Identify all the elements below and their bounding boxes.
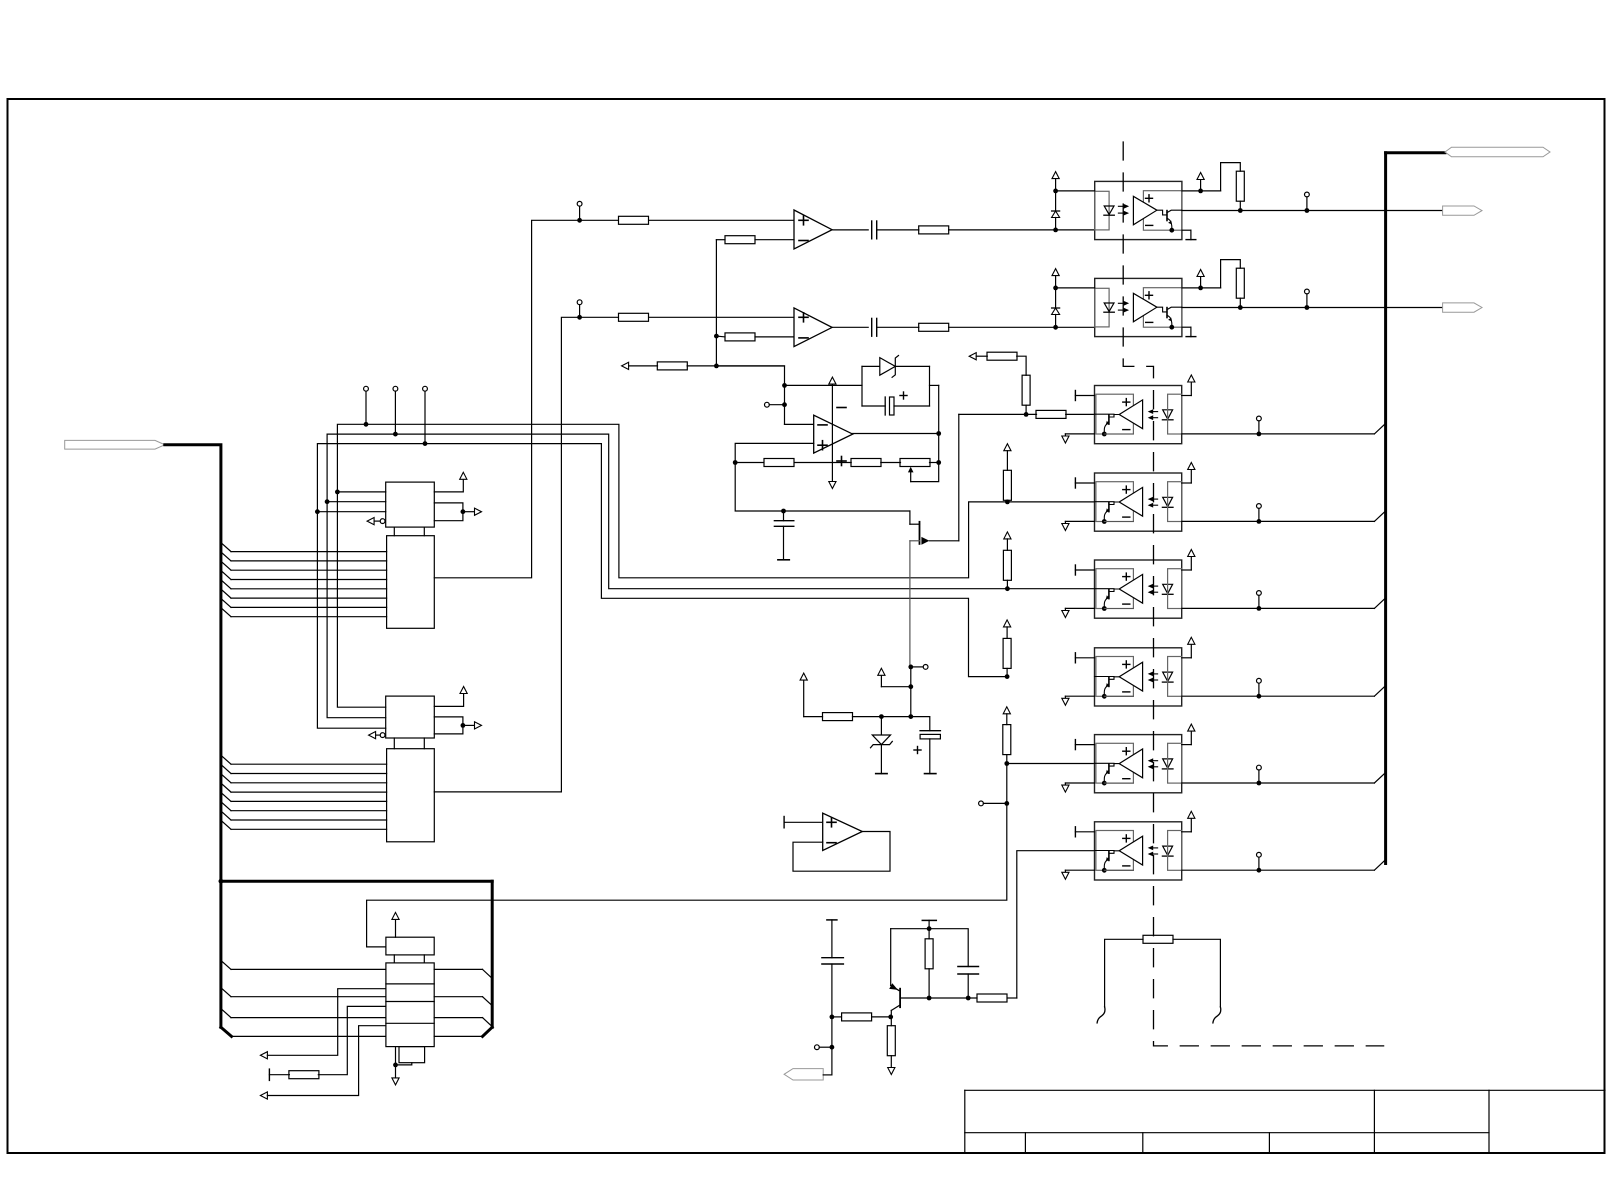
junction on thick bus — [219, 879, 224, 884]
resistor R8 — [764, 459, 794, 467]
potentiometer RV1 — [900, 459, 930, 467]
IC U2 neck — [393, 738, 395, 749]
supply tap bar 2 — [922, 919, 936, 921]
pullup resistor R22 — [1221, 163, 1241, 191]
resistor R19 — [925, 939, 933, 969]
control net 1 branch to U2 — [337, 492, 385, 707]
CN1 bus wires — [221, 960, 231, 969]
terminal T11 — [1305, 289, 1310, 294]
power symbol VCC node — [881, 686, 910, 688]
optocoupler OC5 — [1095, 560, 1182, 618]
resistor R11 — [1022, 375, 1030, 405]
IC U1 upper section — [386, 482, 435, 527]
OC8 supply arrow — [1182, 831, 1192, 833]
OC4 common pin arrow — [1065, 520, 1094, 522]
capacitor C6 — [822, 957, 844, 959]
U1 cascade arrow — [463, 511, 475, 513]
terminal T9 — [815, 1045, 820, 1050]
terminal T2 — [393, 386, 398, 391]
ground stub for C4 — [778, 559, 789, 561]
power symbol V- A3 — [829, 482, 836, 489]
optocoupler OC7 — [1095, 735, 1182, 793]
capacitor C2 — [871, 318, 873, 336]
power symbol VCC U1 — [460, 472, 467, 479]
IC U2 upper section — [386, 696, 435, 738]
terminal T4 — [577, 201, 582, 206]
power symbol and resistor R13 (OC4 feed) — [1004, 444, 1011, 451]
wire A3 output — [853, 433, 939, 435]
wire to Q2 emitter — [891, 928, 929, 930]
optocoupler OC2 — [1095, 278, 1182, 336]
wire A2 out to C2 — [832, 326, 868, 328]
Q2 base wire — [900, 997, 929, 999]
OC2 emitter return stub — [1182, 326, 1191, 328]
wire R17 to node — [853, 716, 911, 718]
feedback network frame — [861, 366, 863, 406]
OC4 supply arrow — [1182, 482, 1192, 484]
wire node to R12 — [959, 413, 1037, 415]
OC5 output wire — [1182, 607, 1375, 609]
contact wire left — [1105, 939, 1143, 1007]
wire R4 to A2 — [755, 336, 794, 338]
OC5 input tap bar — [1074, 565, 1076, 575]
capacitor C1 — [871, 221, 873, 239]
resistor R6 — [919, 226, 949, 234]
terminal T6 — [765, 402, 770, 407]
wire R7 to opto OC2 — [949, 326, 1095, 328]
wire OC7 input line — [1007, 763, 1095, 765]
wire R11 to node — [1025, 405, 1027, 414]
wire OC8 input line — [1017, 851, 1095, 998]
terminal T7 — [979, 801, 984, 806]
wire U2 output to amp A2 — [434, 317, 579, 792]
thick bus bottom bevel left — [221, 1027, 232, 1036]
zener diode D1 — [880, 358, 896, 376]
OC8 common pin arrow — [1065, 869, 1094, 871]
control net 1 wire — [337, 424, 1007, 578]
OC5 bus entry bevel — [1374, 598, 1385, 608]
OC3 input tap bar — [1074, 391, 1076, 401]
OC4 input tap bar — [1074, 478, 1076, 488]
control net 2 wire — [327, 434, 1094, 589]
OC1 input clamp diode D3 — [1052, 172, 1059, 179]
Q1 source wire down — [909, 541, 911, 667]
control net 2 branch to U1 — [327, 501, 386, 503]
RV1 wiper return wire — [911, 463, 939, 482]
terminal T5 — [577, 300, 582, 305]
resistor R4 on A2 -input — [725, 333, 755, 341]
IC U1 lower section — [387, 536, 435, 629]
wire bar2 down — [928, 920, 930, 938]
terminal T1 — [364, 386, 369, 391]
OC7 input tap bar — [1074, 740, 1076, 750]
power symbol and resistor R14 (OC5 feed) — [1004, 532, 1011, 539]
connector CN1 top section — [386, 937, 434, 955]
OC8 input tap bar — [1074, 827, 1076, 837]
A3 output vertical wire — [938, 385, 940, 462]
thick isolated-area box right edge — [491, 881, 494, 1027]
RV1 wiper arrow — [908, 467, 914, 473]
transistor Q2 — [890, 929, 892, 986]
isolation barrier dashed line upper — [1123, 142, 1383, 1046]
power symbol and resistor R16 (OC7 feed) — [1003, 707, 1010, 714]
connector flag J4 — [1443, 303, 1482, 312]
U2 cascade arrow — [463, 724, 475, 726]
terminal T10 — [1305, 192, 1310, 197]
A4 input tap bar — [783, 817, 785, 828]
contact wire right — [1173, 939, 1220, 1007]
terminal T8 — [923, 665, 928, 670]
OC3 common pin arrow — [1065, 433, 1094, 435]
OC6 input tap bar — [1074, 653, 1076, 663]
control net 2 branch to U2 — [327, 502, 386, 718]
wire T4 to R1 — [580, 219, 618, 221]
wire bar2 to C7 — [929, 929, 968, 967]
wire D4 node to OC2 anode — [1056, 287, 1095, 289]
resistor R3 — [619, 313, 649, 321]
wire A3 minus input — [785, 423, 814, 425]
ground stub C5 — [925, 773, 936, 775]
wire C2 to R7 — [877, 326, 919, 328]
op-amp A3 — [814, 415, 853, 453]
OC4 bus entry bevel — [1374, 511, 1385, 521]
OC2 output line — [1182, 307, 1443, 309]
resistor R12 — [1036, 410, 1066, 418]
wire T5 to R3 — [580, 316, 618, 318]
connector flag J1 (left input) — [65, 440, 165, 449]
OC8 bus entry bevel — [1374, 860, 1385, 870]
capacitor C7 — [958, 966, 979, 968]
OC6 output wire — [1182, 695, 1375, 697]
wire A1 out to C1 — [832, 229, 868, 231]
optocoupler OC1 — [1095, 181, 1182, 239]
wire R3 to A2 +input — [649, 316, 794, 318]
OC3 supply arrow — [1182, 395, 1192, 397]
wire U1 output to amp A1 — [434, 220, 579, 578]
OC6 common pin arrow — [1065, 695, 1094, 697]
resistor R24 (contact bridge) — [1143, 935, 1173, 943]
A4 feedback loop wire — [793, 832, 890, 872]
wire D3 node to OC1 anode — [1056, 190, 1095, 192]
OC1 emitter return stub — [1182, 229, 1191, 231]
optocoupler OC8 — [1095, 822, 1182, 880]
electrolytic capacitor C5 — [911, 717, 930, 731]
OC5 common pin arrow — [1065, 607, 1094, 609]
wire to A4 +input — [784, 821, 823, 823]
wire R6 to opto OC1 — [949, 229, 1095, 231]
OC4 output wire — [1182, 520, 1375, 522]
transistor Q1 — [909, 511, 911, 524]
wire node down — [910, 667, 912, 717]
resistor R18 — [832, 1016, 841, 1018]
control net 3 wire — [317, 444, 1007, 677]
resistor R1 — [619, 216, 649, 224]
wire R21 to OC8 riser — [1007, 997, 1017, 999]
wire R1 to A1 +input — [649, 219, 794, 221]
OC6 bus entry bevel — [1374, 686, 1385, 696]
connector CN1 body — [386, 963, 434, 1047]
thick bus wire from J1 — [165, 445, 221, 1027]
U2 output pins wire — [434, 717, 463, 734]
OC3 output wire — [1182, 433, 1375, 435]
OC8 output wire — [1182, 869, 1375, 871]
wire bar to C6 — [831, 920, 833, 958]
OC5 supply arrow — [1182, 569, 1192, 571]
pullup resistor R23 — [1221, 260, 1241, 288]
optocoupler OC3 — [1095, 386, 1182, 444]
resistor R10 — [987, 352, 1017, 360]
U1 supply pin wire — [434, 479, 463, 492]
OC1 output line — [1182, 210, 1443, 212]
wire A3 plus node down — [735, 463, 910, 512]
U1 output pins wire — [434, 503, 463, 521]
resistor R5 — [657, 362, 687, 370]
OC7 output wire — [1182, 782, 1375, 784]
capacitor C4 — [783, 511, 785, 521]
wire R9 to RV1 — [881, 462, 901, 464]
op-amp A2 — [794, 308, 832, 347]
terminal T3 — [423, 386, 428, 391]
thick isolated-area box top — [221, 880, 492, 883]
power symbol minus CN1 — [392, 1078, 399, 1085]
OC6 supply arrow — [1182, 657, 1192, 659]
resistor R2 on A1 -input — [725, 236, 755, 244]
resistor R9 — [851, 459, 881, 467]
bus wires into U2 — [221, 755, 231, 764]
CN1 left input arrow 1 — [260, 1052, 267, 1059]
OC7 bus entry bevel — [1374, 773, 1385, 783]
op-amp A1 — [794, 210, 832, 249]
supply tap bar 1 — [827, 919, 837, 921]
Q1 gate wire to B3 input node — [958, 414, 960, 540]
IC U2 lower section — [387, 749, 435, 842]
resistor R20 — [887, 1026, 895, 1056]
resistor R21 — [977, 994, 1007, 1002]
OC2 input clamp diode D4 — [1052, 269, 1059, 276]
wire C1 to R6 — [877, 229, 919, 231]
optocoupler OC4 — [1095, 473, 1182, 531]
wire R10 corner down — [1017, 356, 1026, 375]
thick output bus — [1384, 153, 1387, 864]
power symbol VCC U2 — [460, 687, 467, 694]
title block — [965, 1090, 1605, 1153]
OC7 supply arrow — [1182, 744, 1192, 746]
switch contact left — [1097, 1007, 1105, 1023]
power symbol and resistor R15 (OC6 feed) — [1004, 620, 1011, 627]
CN1 left input arrow 2 — [260, 1092, 267, 1099]
OC3 bus entry bevel — [1374, 424, 1385, 434]
op-amp A4 — [823, 813, 863, 850]
optocoupler OC6 — [1095, 648, 1182, 706]
node wire to A3 minus network — [715, 366, 784, 424]
connector flag J3 — [1443, 206, 1482, 215]
A3 supply rail — [831, 384, 833, 481]
wire minus chain vertical — [716, 239, 725, 241]
wire R12 to opto OC3 — [1066, 413, 1095, 415]
reference arrow to left — [622, 362, 629, 369]
control net 1 branch to U1 — [337, 491, 385, 493]
OC2 output supply arrow — [1198, 286, 1203, 291]
OC7 common pin arrow — [1065, 782, 1094, 784]
A3 plus input network — [735, 443, 814, 462]
bus wires into U1 — [221, 543, 231, 552]
power symbol plus CN1 — [395, 919, 397, 937]
U1 enable pin arrow — [367, 518, 374, 525]
control net 3 branch to U1 — [317, 511, 385, 513]
wire C6 down — [831, 964, 833, 1075]
ground stub D2 — [876, 773, 887, 775]
control net 3 branch to U2 — [317, 512, 385, 729]
U2 supply pin wire — [434, 694, 463, 707]
connector CN1 bottom stub — [399, 1047, 425, 1063]
wire OC4 input line — [1007, 501, 1094, 503]
wire R8 to R9 — [794, 462, 851, 464]
power arrow and resistor R17 — [800, 673, 807, 680]
input arrow left — [969, 353, 976, 360]
connector flag J2 (bottom left) — [784, 1069, 823, 1080]
IC U1 neck — [393, 527, 395, 536]
U2 enable pin arrow — [369, 732, 376, 739]
connector CN1 neck — [393, 955, 395, 963]
power symbol V+ A3 — [829, 377, 836, 384]
feedback to output wire — [930, 384, 939, 386]
connector flag J5 (top right) — [1445, 147, 1550, 157]
electrolytic capacitor C3 — [862, 405, 885, 407]
switch contact right — [1213, 1007, 1221, 1023]
OC1 output supply arrow — [1198, 189, 1203, 194]
wire R2 to A1 — [755, 239, 794, 241]
wire OC7 input node down to long net — [367, 764, 1007, 947]
wire feedback node — [785, 384, 863, 386]
thick bus bottom bevel right — [483, 1027, 493, 1036]
CN1 input tap bar and resistor R25 — [268, 1069, 270, 1080]
power symbol minus R20 — [888, 1068, 895, 1075]
zener diode D2 — [880, 717, 882, 735]
node junction dots — [908, 665, 913, 670]
base line to R21 — [929, 997, 977, 999]
wire R5 node — [687, 365, 716, 367]
resistor R7 — [919, 323, 949, 331]
